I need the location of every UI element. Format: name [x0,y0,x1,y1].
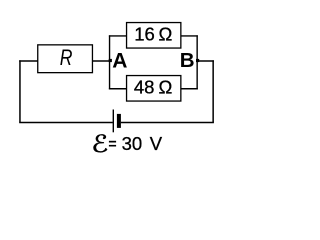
resistor R (box) [38,45,93,73]
svg-text:16: 16 [134,24,155,45]
resistor 16-ohm (box) [127,23,181,49]
wire: right branch vertical (node B riser) [196,35,198,89]
wire: 16-ohm resistor to node B [181,35,198,37]
battery V1 short thick plate (negative) [117,114,121,128]
svg-text:V: V [150,133,163,154]
wire: right vertical wire [212,60,214,122]
wire: left branch vertical (node A riser) [109,35,111,89]
wire: node A to 16-ohm resistor [109,35,127,37]
svg-text:30: 30 [122,133,143,154]
node A junction dot [109,59,112,62]
wire: bottom wire left segment [19,122,113,124]
wire: node B to right vertical wire [197,60,214,62]
wire: left vertical wire [19,60,21,122]
svg-text:Ω: Ω [159,77,173,98]
wire: resistor R to node A [92,60,110,62]
wire: top-left horizontal wire to resistor R [19,60,38,62]
svg-text:Ω: Ω [159,24,173,45]
battery V1 long plate (positive) [112,110,114,133]
resistor 48-ohm (box) [127,76,181,102]
svg-text:48: 48 [134,77,155,98]
wire: 48-ohm resistor to node B [181,88,198,90]
wire: node A to 48-ohm resistor [109,88,127,90]
node B junction dot [196,59,199,62]
svg-text:R: R [60,46,73,70]
wire: bottom wire right segment [121,122,214,124]
svg-text:B: B [180,49,195,72]
battery EMF equals sign [109,141,116,143]
svg-text:A: A [112,49,127,72]
battery EMF script-E glyph [94,134,108,152]
